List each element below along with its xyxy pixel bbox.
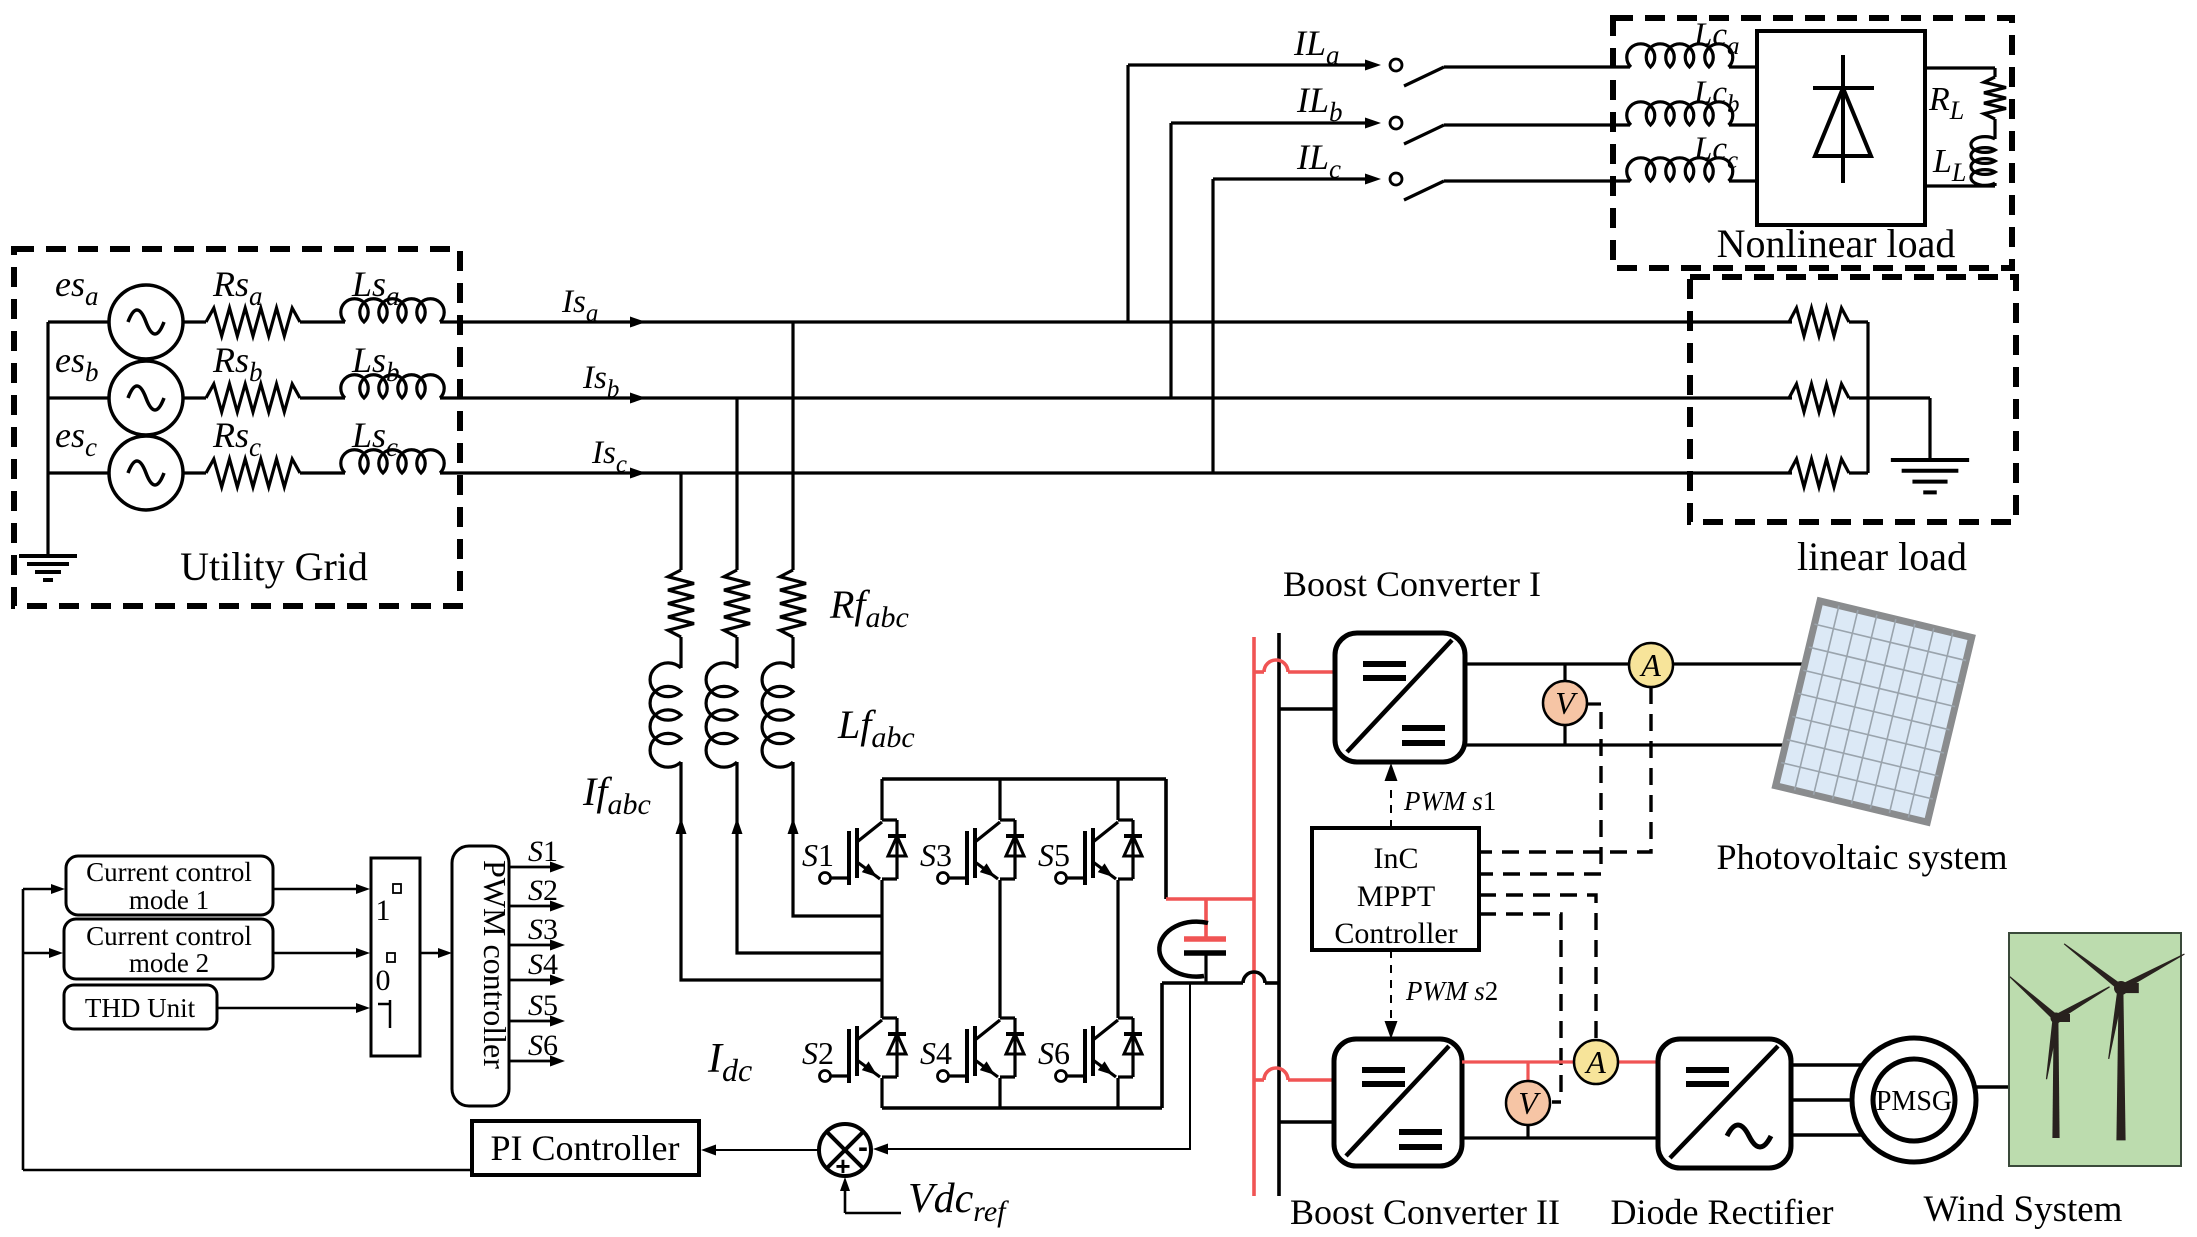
- svg-text:S3: S3: [528, 913, 558, 946]
- wire S1 output: [509, 866, 551, 869]
- wire THD to mux: [217, 1007, 358, 1010]
- wire black dc bus vertical: [1277, 633, 1281, 1196]
- svg-text:Utility Grid: Utility Grid: [180, 544, 368, 589]
- voltmeter V1: [1543, 681, 1587, 725]
- boost converter II: [1334, 1039, 1462, 1166]
- block PI Controller: [472, 1121, 699, 1175]
- wire PMSG to wind box: [1974, 1085, 2009, 1089]
- wire inverter leg 1: [880, 779, 883, 820]
- svg-text:A: A: [1584, 1044, 1606, 1080]
- inductor Ls_c: [341, 450, 444, 473]
- wire inverter bottom bus: [882, 1106, 1162, 1110]
- svg-text:Nonlinear load: Nonlinear load: [1717, 221, 1956, 266]
- voltmeter V2 stub: [1526, 1062, 1529, 1081]
- resistor Rf branch: [724, 570, 750, 637]
- wire red inverter to bus: [1166, 897, 1254, 901]
- wire Is_b line: [440, 396, 1792, 399]
- capacitor C_dc: [1159, 899, 1226, 983]
- svg-text:V: V: [1518, 1085, 1541, 1121]
- wire Is_a line: [440, 320, 1792, 323]
- resistor Rf branch: [780, 570, 806, 637]
- wire boost I out bottom: [1465, 743, 1787, 746]
- svg-text:S5: S5: [528, 989, 558, 1022]
- utility grid box: [14, 249, 460, 606]
- wire phase a source row: [48, 320, 109, 323]
- wire boost II out black: [1462, 1136, 1658, 1139]
- transistor S3: [938, 820, 1025, 885]
- svg-text:Wind System: Wind System: [1924, 1189, 2123, 1230]
- block InC MPPT controller: [1312, 828, 1479, 950]
- wire LL bottom: [1993, 183, 1996, 186]
- wire S6 output: [509, 1060, 551, 1063]
- svg-text:S4: S4: [920, 1035, 952, 1071]
- voltmeter V2: [1506, 1081, 1550, 1125]
- inductor Lc_c: [1627, 158, 1757, 181]
- svg-text:Boost Converter II: Boost Converter II: [1290, 1192, 1560, 1232]
- wire RL top: [1925, 66, 1995, 69]
- svg-text:+: +: [835, 1151, 850, 1181]
- arrow IL_c: [1365, 174, 1381, 185]
- wire mode2 to mux: [273, 952, 358, 955]
- resistor Rs_a: [206, 308, 300, 336]
- wire Vdc_ref input: [845, 1212, 901, 1215]
- svg-text:PWM s1: PWM s1: [1403, 786, 1496, 816]
- transistor S1: [820, 820, 907, 885]
- dashed sense V1: [1587, 702, 1601, 705]
- wire black bus to boost I: [1279, 707, 1335, 711]
- inductor Lf branch: [706, 663, 737, 767]
- ammeter A1: [1629, 643, 1673, 687]
- svg-text:S4: S4: [528, 948, 558, 981]
- svg-text:S2: S2: [802, 1035, 834, 1071]
- arrow If b: [732, 818, 743, 834]
- ammeter A2: [1574, 1040, 1618, 1084]
- block Current control mode 1: [66, 856, 273, 915]
- wire Idc sense: [878, 983, 1190, 1149]
- arrow If c: [676, 818, 687, 834]
- arrow Is_a: [630, 317, 646, 328]
- ground (linear load): [1891, 460, 1969, 492]
- wire S2 output: [509, 905, 551, 908]
- wire filter branch a vertical top: [791, 322, 794, 570]
- svg-text:1: 1: [376, 894, 391, 927]
- svg-text:Current control: Current control: [86, 921, 252, 951]
- svg-text:S1: S1: [802, 837, 834, 873]
- inductor Lc_b: [1627, 102, 1757, 125]
- dashed sense V2: [1479, 914, 1561, 1102]
- inductor Lf branch: [762, 663, 793, 767]
- wire source bus: [46, 322, 49, 473]
- wire feedback to mode2: [23, 952, 51, 955]
- mux switch block: [371, 858, 420, 1056]
- wire IL_c feeder vertical: [1211, 179, 1214, 473]
- summing junction: [819, 1124, 871, 1181]
- switch IL_b: [1390, 117, 1630, 144]
- boost converter I: [1335, 633, 1465, 762]
- dashed PWM s2: [1390, 950, 1392, 1020]
- dashed sense A2: [1479, 895, 1596, 1038]
- AC source es_c: [109, 436, 183, 510]
- wire IL_c horizontal: [1213, 177, 1366, 180]
- wire Rs to Ls (b): [300, 396, 345, 399]
- wire linear load to ground: [1928, 398, 1931, 460]
- photovoltaic panel: [1776, 601, 1972, 822]
- svg-text:PMSG: PMSG: [1876, 1086, 1952, 1117]
- wire inverter right top to dc bus: [1164, 779, 1168, 899]
- diode rectifier block (nonlinear load): [1757, 31, 1925, 225]
- wire IL_a horizontal: [1128, 63, 1366, 66]
- svg-text:MPPT: MPPT: [1357, 880, 1435, 913]
- svg-text:S2: S2: [528, 874, 558, 907]
- svg-text:S6: S6: [1038, 1035, 1070, 1071]
- nonlinear load box: [1613, 18, 2012, 268]
- resistor Rf branch: [668, 570, 694, 637]
- arrow If a: [788, 818, 799, 834]
- wire Is_c line: [440, 471, 1792, 474]
- wire S5 output: [509, 1020, 551, 1023]
- linear load box: [1690, 277, 2016, 522]
- wire Rs to Ls (a): [300, 320, 345, 323]
- block THD Unit: [64, 985, 217, 1029]
- svg-text:InC: InC: [1374, 842, 1419, 875]
- svg-text:mode 1: mode 1: [129, 885, 209, 915]
- wire IL_b horizontal: [1171, 121, 1366, 124]
- inductor L_L: [1971, 137, 1995, 186]
- AC source es_a: [109, 285, 183, 359]
- AC source es_b: [109, 361, 183, 435]
- wire S3 output: [509, 944, 551, 947]
- wire red bus to boost I (hop over black): [1254, 670, 1264, 674]
- wire inverter leg 2: [998, 779, 1001, 820]
- resistor Rs_c: [206, 459, 300, 487]
- arrow IL_a: [1365, 60, 1381, 71]
- svg-text:linear load: linear load: [1797, 534, 1967, 579]
- wire phase c source row: [48, 471, 109, 474]
- wire boost I out top: [1465, 662, 1806, 665]
- svg-text:V: V: [1555, 685, 1578, 721]
- wire summing to PI: [713, 1149, 819, 1151]
- svg-text:S1: S1: [528, 835, 558, 868]
- diode rectifier: [1658, 1039, 1791, 1168]
- resistor linear load b: [1789, 384, 1930, 412]
- transistor S2: [820, 1018, 907, 1083]
- svg-text:Current control: Current control: [86, 857, 252, 887]
- wire feedback to mode1: [23, 888, 53, 891]
- transistor S5: [1056, 820, 1143, 885]
- wire filter c to inverter: [681, 762, 882, 980]
- wire red bus to boost II (hop over black): [1254, 1078, 1264, 1082]
- wire es to Rs (a): [183, 320, 206, 323]
- wire filter b to inverter: [737, 762, 882, 953]
- resistor linear load a: [1789, 308, 1868, 336]
- svg-text:S5: S5: [1038, 837, 1070, 873]
- wire feedback vertical: [22, 889, 25, 1170]
- wire IL_a feeder vertical: [1126, 65, 1129, 322]
- wire phase b source row: [48, 396, 109, 399]
- ground (utility): [19, 473, 77, 580]
- svg-text:PWM controller: PWM controller: [477, 860, 513, 1069]
- resistor R_L: [1984, 77, 2006, 119]
- arrow Is_b: [630, 393, 646, 404]
- wire Vdc sense to summing: [883, 1148, 1190, 1150]
- wire IL_b feeder vertical: [1169, 123, 1172, 398]
- wire rectifier to PMSG (3 lines): [1791, 1063, 1862, 1067]
- svg-text:0: 0: [376, 964, 391, 997]
- svg-text:THD Unit: THD Unit: [85, 993, 196, 1023]
- wire filter branch c vertical top: [679, 473, 682, 570]
- wire red dc bus vertical: [1252, 637, 1256, 1196]
- wire mode1 to mux: [273, 888, 358, 891]
- svg-text:Boost Converter I: Boost Converter I: [1283, 564, 1541, 604]
- resistor Rs_b: [206, 384, 300, 412]
- svg-text:Diode Rectifier: Diode Rectifier: [1611, 1192, 1834, 1232]
- wire Rf to Lf: [679, 637, 682, 668]
- wire es to Rs (b): [183, 396, 206, 399]
- switch IL_c: [1390, 173, 1630, 200]
- wire inverter bottom to black bus (hop over red): [1162, 981, 1243, 985]
- wire PI output: [23, 1169, 472, 1172]
- wire S4 output: [509, 979, 551, 982]
- wire Rs to Ls (c): [300, 471, 345, 474]
- wire inverter leg 3: [1116, 779, 1119, 820]
- wire black bus to boost II: [1279, 1120, 1334, 1124]
- voltmeter V1 stub: [1563, 664, 1566, 682]
- svg-text:Controller: Controller: [1334, 917, 1457, 950]
- svg-text:A: A: [1639, 647, 1661, 683]
- inductor Lc_a: [1627, 44, 1757, 67]
- svg-text:mode 2: mode 2: [129, 948, 209, 978]
- inductor Ls_b: [341, 375, 444, 398]
- svg-text:S6: S6: [528, 1029, 558, 1062]
- dashed PWM s1: [1390, 783, 1392, 828]
- svg-text:Photovoltaic system: Photovoltaic system: [1717, 837, 2008, 877]
- wire inverter right bottom: [1160, 983, 1164, 1108]
- transistor S4: [938, 1018, 1025, 1083]
- wire boost II out red: [1462, 1060, 1658, 1063]
- arrow IL_b: [1365, 118, 1381, 129]
- wire es to Rs (c): [183, 471, 206, 474]
- svg-text:S3: S3: [920, 837, 952, 873]
- wire mux to PWM controller: [420, 952, 440, 955]
- wire RL to LL: [1993, 119, 1996, 139]
- inductor Ls_a: [341, 299, 444, 322]
- wire filter branch b vertical top: [735, 398, 738, 570]
- wire inverter top bus: [882, 777, 1166, 781]
- block Current control mode 2: [64, 919, 273, 979]
- arrow Is_c: [630, 468, 646, 479]
- wind system picture: [2008, 933, 2187, 1166]
- transistor S6: [1056, 1018, 1143, 1083]
- svg-text:PI Controller: PI Controller: [491, 1128, 680, 1168]
- dashed sense A1: [1479, 687, 1651, 852]
- generator PMSG: [1852, 1038, 1976, 1162]
- resistor linear load c: [1789, 459, 1868, 487]
- svg-text:-: -: [858, 1131, 868, 1164]
- wire Rf to Lf: [791, 637, 794, 668]
- wire Rf to Lf: [735, 637, 738, 668]
- inductor Lf branch: [650, 663, 681, 767]
- wire linear load bus: [1866, 322, 1869, 473]
- wire filter a to inverter: [793, 762, 882, 916]
- svg-text:PWM s2: PWM s2: [1405, 976, 1498, 1006]
- block PWM controller: [452, 846, 513, 1106]
- switch IL_a: [1390, 59, 1630, 86]
